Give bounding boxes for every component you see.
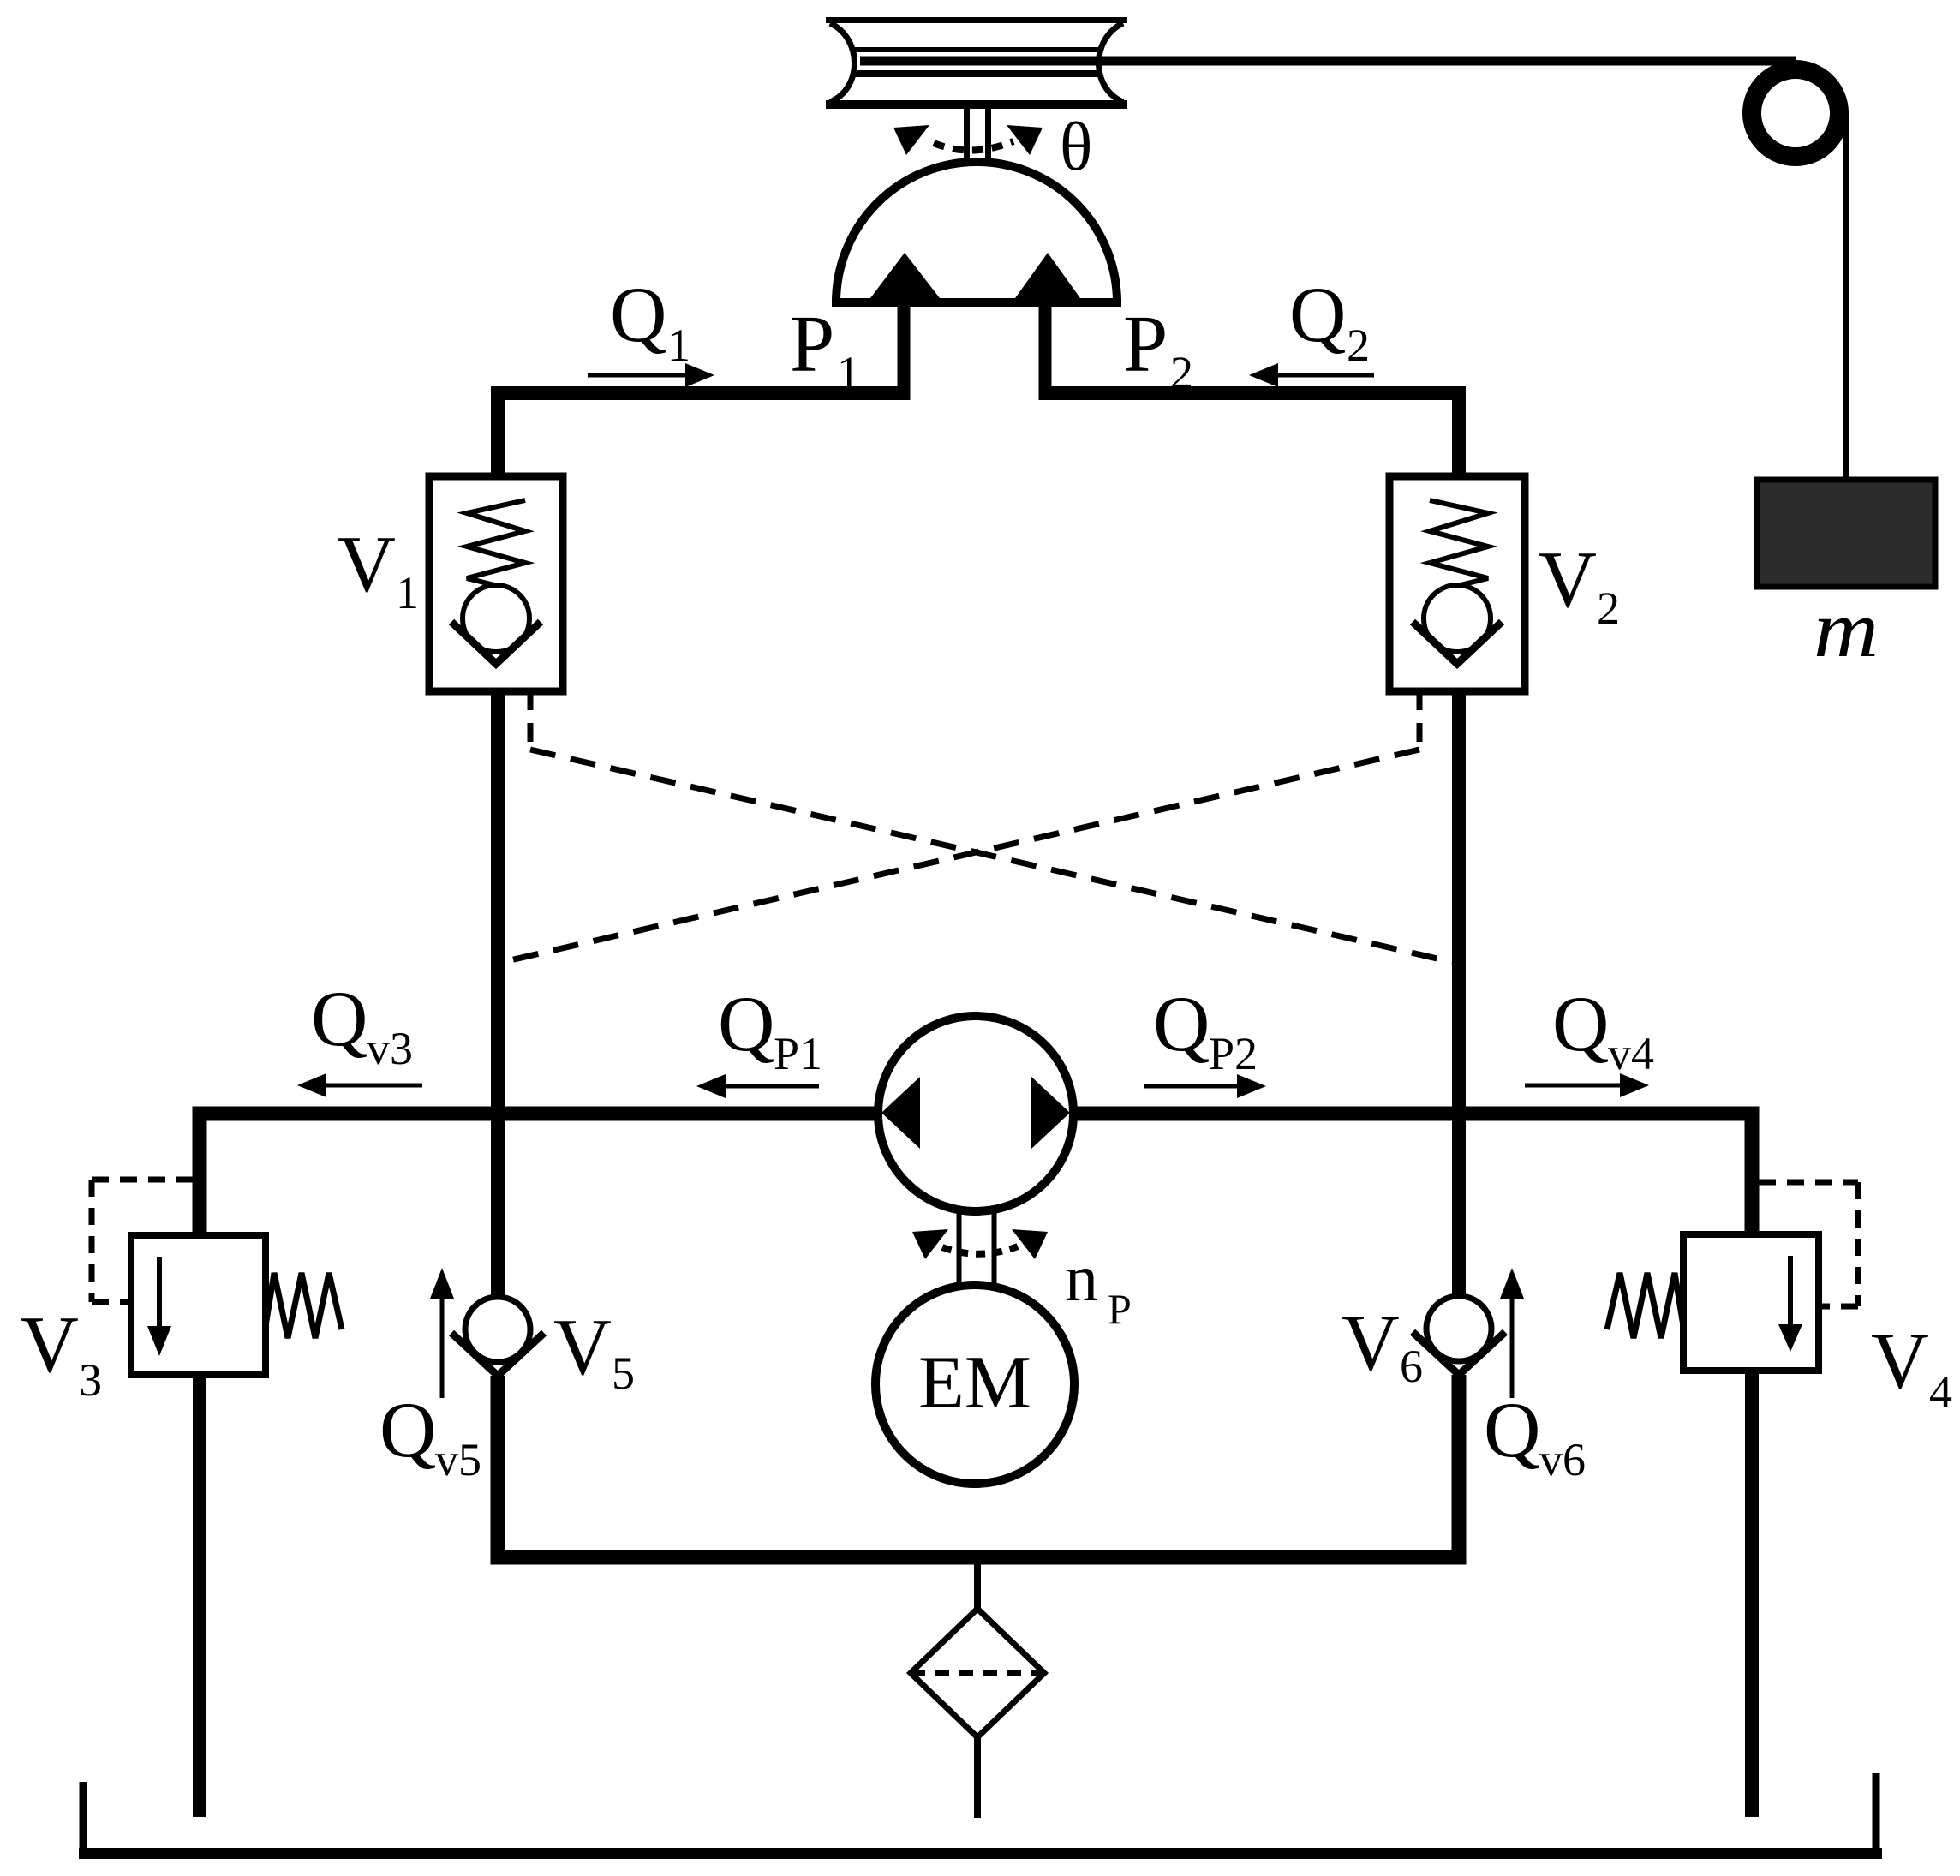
svg-text:Q: Q xyxy=(1484,1386,1540,1473)
svg-text:2: 2 xyxy=(1347,320,1370,371)
svg-text:3: 3 xyxy=(79,1354,102,1406)
svg-text:5: 5 xyxy=(612,1347,635,1399)
svg-text:2: 2 xyxy=(1170,347,1193,398)
svg-text:EM: EM xyxy=(918,1341,1031,1425)
svg-text:P: P xyxy=(1123,300,1168,389)
svg-text:V: V xyxy=(21,1300,79,1389)
svg-text:Q: Q xyxy=(1552,980,1609,1067)
svg-text:v5: v5 xyxy=(435,1434,481,1485)
svg-text:4: 4 xyxy=(1929,1366,1952,1418)
svg-text:Q: Q xyxy=(311,975,367,1062)
svg-text:V: V xyxy=(553,1303,612,1392)
svg-text:6: 6 xyxy=(1400,1341,1423,1392)
svg-text:v3: v3 xyxy=(367,1023,413,1074)
svg-text:Q: Q xyxy=(1153,980,1210,1067)
svg-text:v4: v4 xyxy=(1608,1028,1654,1079)
svg-text:V: V xyxy=(338,520,396,609)
svg-text:Q: Q xyxy=(610,271,666,358)
svg-text:P: P xyxy=(1108,1285,1132,1333)
svg-text:V: V xyxy=(1342,1299,1400,1388)
svg-text:θ: θ xyxy=(1060,110,1092,185)
svg-text:1: 1 xyxy=(667,320,690,371)
svg-text:P: P xyxy=(790,300,834,389)
svg-text:Q: Q xyxy=(1289,271,1346,358)
svg-text:n: n xyxy=(1065,1240,1098,1315)
svg-text:1: 1 xyxy=(837,347,860,398)
svg-text:2: 2 xyxy=(1597,583,1620,634)
svg-text:P2: P2 xyxy=(1209,1028,1258,1079)
svg-text:Q: Q xyxy=(718,980,774,1067)
svg-text:Q: Q xyxy=(379,1386,436,1473)
svg-text:P1: P1 xyxy=(774,1028,822,1079)
svg-text:1: 1 xyxy=(396,567,419,618)
svg-text:v6: v6 xyxy=(1539,1434,1586,1485)
svg-text:m: m xyxy=(1814,585,1879,674)
svg-text:V: V xyxy=(1539,535,1597,624)
svg-text:V: V xyxy=(1871,1317,1929,1406)
